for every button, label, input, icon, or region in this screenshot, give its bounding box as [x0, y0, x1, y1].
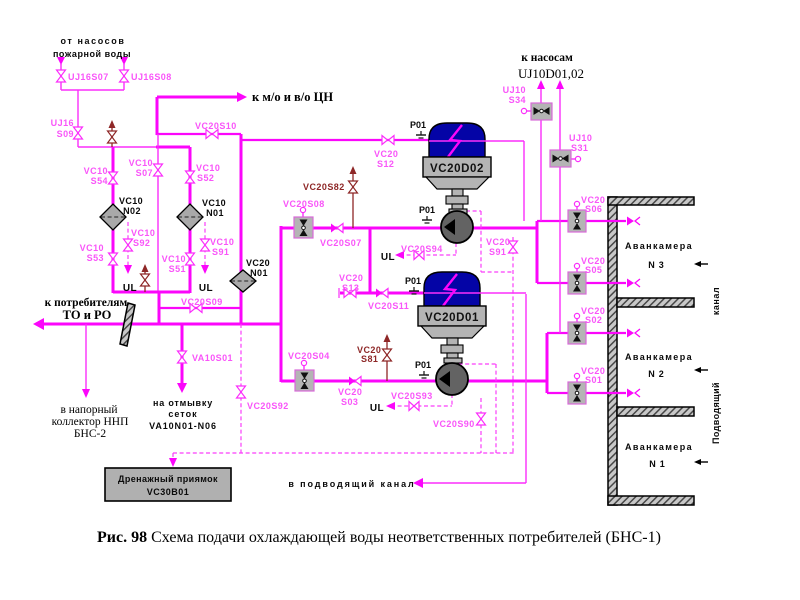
svg-text:VC20S82: VC20S82 [303, 182, 345, 192]
svg-text:S92: S92 [133, 238, 150, 248]
svg-text:VC20: VC20 [374, 149, 398, 159]
svg-text:коллектор ННП: коллектор ННП [52, 416, 129, 428]
wire: UJ16 supply drop [57, 57, 128, 147]
check valve at N3 inlet (VC20S05 line) [627, 279, 640, 288]
svg-text:VC10: VC10 [84, 166, 108, 176]
wire: pump1 suction line VC20S08/S07 [281, 227, 537, 230]
wire: pump suction riser [280, 226, 283, 382]
svg-text:VC20S07: VC20S07 [320, 238, 362, 248]
svg-text:VC10: VC10 [131, 228, 155, 238]
svg-text:S31: S31 [571, 143, 588, 153]
valve VC20S92 (dashed line) [237, 386, 246, 398]
filter bar on return header [120, 303, 135, 346]
valve VA10S01 [178, 351, 187, 363]
label VC10 S53 [80, 243, 104, 263]
label UJ10 S31 [569, 133, 592, 153]
wire: strainer VC20N01 riser [240, 134, 243, 324]
svg-text:N1: N1 [649, 459, 669, 469]
label VC20 S06 [581, 195, 605, 214]
svg-text:VC20S90: VC20S90 [433, 419, 475, 429]
svg-text:UJ10: UJ10 [503, 85, 526, 95]
wire: VC10 N02 branch riser [112, 147, 115, 293]
valve VC20S94 [414, 251, 424, 260]
label VC20 S02 [581, 306, 605, 325]
svg-text:ТО и РО: ТО и РО [63, 308, 112, 322]
relief valve VC20S82 (red) [349, 166, 358, 228]
chamber N3 top wall [608, 197, 694, 205]
wall between N3 and N2 [617, 298, 694, 307]
flow arrow into N2 [694, 367, 708, 373]
label VC20 S03 [338, 387, 362, 407]
svg-text:VC20S09: VC20S09 [181, 297, 223, 307]
wire: header to VC10 branch [156, 146, 190, 149]
svg-text:UJ16S07: UJ16S07 [68, 72, 109, 82]
pump unit VC20D02: motor [429, 123, 485, 157]
label VC10 N02 [119, 196, 143, 216]
valve UJ16S09 [74, 127, 83, 139]
label UJ16 S09 [51, 118, 74, 139]
node на отмывку сеток VA10N01-N06 [149, 398, 217, 431]
relief valve (red) on UJ16 header [108, 120, 117, 147]
svg-text:S13: S13 [342, 283, 359, 293]
node к насосам UJ10D01,02 [518, 52, 584, 81]
strainer VC20N01 [230, 270, 256, 292]
svg-text:UJ16: UJ16 [51, 118, 74, 128]
gate valve UJ10S31 (boxed) [550, 150, 581, 167]
valve VC10S91 [201, 239, 210, 251]
pump VC20D02 impeller [441, 211, 473, 243]
pump VC20D01 motor power bolt [424, 274, 526, 306]
label VC20 S01 [581, 366, 605, 385]
valve VC20S12 [382, 136, 394, 145]
node к потребителям ТО и РО [45, 297, 128, 322]
valve VC10S52 [186, 171, 195, 183]
wire: VC10 N01 branch riser [189, 147, 192, 293]
wire: VC10 S07 bypass [157, 134, 159, 292]
heat exchanger VC10N02 [100, 204, 126, 230]
svg-text:S09: S09 [57, 129, 74, 139]
check valve at N2 inlet (VC20S02 line) [627, 329, 640, 338]
pump VC20D01 casing stand [421, 326, 484, 363]
ground symbol P01 pump2 motor [409, 287, 419, 294]
wire: VC20S01 line to N2 [547, 392, 626, 394]
label VC20 S05 [581, 256, 605, 275]
svg-text:Аванкамера: Аванкамера [625, 352, 693, 362]
svg-text:S01: S01 [585, 375, 602, 385]
svg-text:S53: S53 [87, 253, 104, 263]
label VC20 S91 [486, 237, 510, 257]
valve UJ16S08 [120, 70, 129, 82]
svg-text:сеток: сеток [168, 409, 197, 419]
wall between N2 and N1 [617, 407, 694, 416]
wire: VC20S91 drain riser (dashed) [512, 237, 514, 453]
flow arrow into N1 [694, 459, 708, 465]
gate valve VC20S08 (boxed) [294, 207, 313, 238]
pump VC20D01 nameplate [418, 306, 486, 326]
svg-text:P01: P01 [419, 205, 435, 215]
gate valve VC20S04 (boxed) [295, 360, 314, 391]
wire: VC20S09 line [159, 307, 241, 309]
svg-text:VC20D02: VC20D02 [430, 163, 484, 175]
svg-text:S12: S12 [377, 159, 394, 169]
label VC20 S13 [339, 273, 363, 293]
svg-text:VC10: VC10 [210, 237, 234, 247]
svg-text:VC30B01: VC30B01 [147, 487, 190, 497]
pump unit VC20D01: motor [424, 272, 480, 306]
svg-text:UL: UL [370, 403, 384, 414]
relief valve (red) on VC10 header [141, 264, 150, 292]
svg-text:S81: S81 [361, 354, 378, 364]
label VC10 S52 [196, 163, 220, 183]
label VC10 S54 [84, 166, 108, 186]
svg-text:VC20S08: VC20S08 [283, 199, 325, 209]
wire: VC20S10 line [156, 133, 241, 135]
wire: UJ10S31 riser к насосам [556, 80, 564, 333]
svg-text:S52: S52 [197, 173, 214, 183]
wire: pump2 suction line VC20S04/S03 [281, 380, 547, 383]
svg-text:S91: S91 [489, 247, 506, 257]
wire: VC10S91 drain (dashed) [201, 222, 209, 274]
svg-text:S54: S54 [91, 176, 108, 186]
wire: VC20S92 drain riser (dashed) [240, 324, 242, 453]
svg-text:Аванкамера: Аванкамера [625, 241, 693, 251]
gate valve UJ10S34 (boxed) [521, 103, 552, 120]
wire: return header к потребителям [33, 318, 281, 330]
svg-text:VC10: VC10 [119, 196, 143, 206]
wire: pump2 seal piping (dashed) [452, 364, 496, 453]
check valve at N3 inlet (VC20S06 line) [627, 217, 640, 226]
svg-text:P01: P01 [415, 360, 431, 370]
svg-text:VC10: VC10 [129, 158, 153, 168]
wire: pump2 discharge riser [546, 333, 549, 393]
valve VC10S51 [186, 253, 195, 265]
wire: pump1 discharge riser [536, 221, 539, 283]
pump VC20D02 nameplate [423, 157, 491, 177]
wire: к м/о и в/о ЦН header [157, 92, 247, 102]
svg-text:UL: UL [123, 283, 137, 294]
wire: VC20S05 line to N3 [537, 282, 626, 284]
relief valve VC20S81 (red) [383, 334, 392, 381]
svg-text:VC10: VC10 [196, 163, 220, 173]
wire: в подводящий канал drain [413, 294, 526, 488]
svg-text:VC20S92: VC20S92 [247, 401, 289, 411]
valve VC20S90 (dashed line) [477, 413, 486, 425]
label VC10 N01 [202, 198, 226, 218]
svg-text:VC20: VC20 [338, 387, 362, 397]
svg-text:БНС-2: БНС-2 [74, 428, 106, 440]
gate valve VC20S05 (boxed) [568, 263, 586, 294]
label VC10 S91 [210, 237, 234, 257]
svg-text:Подводящий: Подводящий [711, 382, 721, 444]
heat exchanger VC10N01 [177, 204, 203, 230]
ground symbol P01 pump2 [419, 371, 429, 378]
wire: VC10S92 drain (dashed) [124, 222, 132, 274]
wire: VC10 bottom header [113, 291, 190, 294]
ground symbol P01 pump1 [422, 216, 432, 223]
node в напорный коллектор ННП БНС-2 [52, 404, 129, 440]
svg-text:VC10: VC10 [202, 198, 226, 208]
valve VC20S07 [331, 224, 343, 233]
svg-text:VA10N01-N06: VA10N01-N06 [149, 421, 217, 431]
node Аванкамера N3 [625, 241, 693, 270]
svg-text:VC20: VC20 [246, 258, 270, 268]
svg-text:Рис. 98 Схема подачи охлаждающ: Рис. 98 Схема подачи охлаждающей воды не… [97, 529, 661, 546]
svg-text:P01: P01 [410, 120, 426, 130]
svg-text:VC10: VC10 [162, 254, 186, 264]
wire: drop to напорный коллектор [82, 324, 90, 398]
svg-text:S03: S03 [341, 397, 358, 407]
label VC20 S12 [374, 149, 398, 169]
svg-text:UJ10: UJ10 [569, 133, 592, 143]
valve VC10S54 [109, 172, 118, 184]
wire: VC20S02 line to N2 [547, 332, 626, 334]
svg-text:VC20: VC20 [486, 237, 510, 247]
gate valve VC20S06 (boxed) [568, 201, 586, 232]
svg-text:N01: N01 [206, 208, 224, 218]
label VC20 N01 [246, 258, 270, 278]
check valve at N2 inlet (VC20S01 line) [627, 389, 640, 398]
wire: main riser top [156, 97, 159, 135]
valve UJ16S07 [57, 70, 66, 82]
wire: UJ16S09 to header [78, 146, 158, 148]
svg-text:S51: S51 [169, 264, 186, 274]
svg-text:N02: N02 [123, 206, 141, 216]
drain sump Дренажный приямок VC30B01 [105, 468, 231, 501]
valve VC10S92 [124, 239, 133, 251]
wire: VC20S94 drain to UL (dashed) [395, 243, 456, 259]
wire: VC20S93 drain to UL (dashed) [386, 394, 452, 410]
gate valve VC20S02 (boxed) [568, 313, 586, 344]
svg-text:N01: N01 [250, 268, 268, 278]
svg-text:пожарной воды: пожарной воды [53, 49, 131, 59]
valve VC10S07 [154, 164, 163, 176]
svg-text:S91: S91 [212, 247, 229, 257]
svg-text:N3: N3 [648, 260, 668, 270]
svg-text:S06: S06 [585, 204, 602, 214]
svg-text:UL: UL [199, 283, 213, 294]
svg-text:VC10: VC10 [80, 243, 104, 253]
svg-text:канал: канал [711, 287, 721, 315]
label UJ10 S34 [503, 85, 526, 105]
svg-text:в подводящий канал: в подводящий канал [288, 479, 415, 489]
svg-text:UL: UL [381, 252, 395, 263]
label VC10 S51 [162, 254, 186, 274]
valve VC20S13 [344, 289, 356, 298]
wire: VC20S13/S11 line to pump VC20D01 motor [339, 288, 425, 298]
svg-text:от насосов: от насосов [60, 36, 125, 46]
svg-text:VC20: VC20 [339, 273, 363, 283]
gate valve VC20S01 (boxed) [568, 373, 586, 404]
svg-text:S02: S02 [585, 315, 602, 325]
svg-text:VA10S01: VA10S01 [192, 353, 233, 363]
label VC20 S81 (red) [357, 345, 381, 364]
svg-text:VC20S94: VC20S94 [401, 244, 443, 254]
pump VC20D01 impeller [436, 363, 468, 395]
svg-text:UJ16S08: UJ16S08 [131, 72, 172, 82]
svg-text:в напорный: в напорный [60, 404, 117, 416]
label VC10 S07 [129, 158, 153, 178]
node Аванкамера N2 [625, 352, 693, 379]
svg-text:на отмывку: на отмывку [153, 398, 213, 408]
svg-text:Аванкамера: Аванкамера [625, 442, 693, 452]
valve VC20S09 [190, 304, 202, 313]
chamber N1 bottom wall [608, 496, 694, 505]
svg-text:N2: N2 [648, 369, 668, 379]
ground symbol P01 pump1 motor [416, 131, 426, 138]
svg-text:к насосам: к насосам [521, 52, 573, 64]
pump VC20D02 casing stand [426, 177, 489, 214]
wire: bottom header drop [158, 292, 161, 324]
svg-text:к м/о и в/о ЦН: к м/о и в/о ЦН [252, 90, 333, 104]
svg-text:VC20S10: VC20S10 [195, 121, 237, 131]
svg-text:S05: S05 [585, 265, 602, 275]
valve VC20S11 [376, 289, 388, 298]
valve VC20S10 [206, 130, 218, 139]
svg-text:S07: S07 [136, 168, 153, 178]
pump VC20D02 motor power bolt [429, 125, 524, 221]
wire: VC20S12 line to pump VC20D02 motor [240, 139, 430, 141]
svg-text:VC20S04: VC20S04 [288, 351, 330, 361]
svg-text:Дренажный приямок: Дренажный приямок [118, 474, 218, 484]
channel left wall [608, 197, 617, 505]
wire: pump2 suction tap [369, 228, 372, 293]
wire: pump1 seal piping (dashed) [466, 211, 513, 272]
svg-text:UJ10D01,02: UJ10D01,02 [518, 66, 584, 81]
valve VC10S53 [109, 253, 118, 265]
wire: VA10S01 drop [177, 324, 187, 393]
label VC10 S92 [131, 228, 155, 248]
wire: VC20S06 line to N3 [537, 220, 626, 222]
flow arrow into N3 [694, 261, 708, 267]
svg-text:VC20S93: VC20S93 [391, 391, 433, 401]
svg-text:VC20S11: VC20S11 [368, 301, 409, 311]
valve VC20S03 [349, 377, 361, 386]
valve VC20S91 (dashed line) [509, 241, 518, 253]
valve VC20S93 [409, 402, 419, 411]
svg-text:S34: S34 [509, 95, 526, 105]
node Аванкамера N1 [625, 442, 693, 469]
svg-text:VC20D01: VC20D01 [425, 312, 479, 324]
wire: UJ10S34 riser к насосам [537, 80, 545, 221]
wire: VC20S90 drain riser (dashed) [480, 398, 482, 453]
wire: drain header to приямок (dashed) [169, 453, 514, 467]
node от насосов пожарной воды [53, 36, 131, 59]
svg-text:P01: P01 [405, 276, 421, 286]
